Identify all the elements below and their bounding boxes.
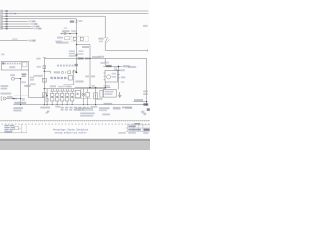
wire: bus line 7	[1, 26, 32, 28]
component: unit box x85.9	[86, 89, 90, 106]
component: small box x99.9	[100, 90, 103, 97]
label: destination of branch	[28, 40, 32, 42]
node: pin ticks left edge of M1	[104, 73, 105, 79]
component: starter M1 box	[105, 70, 118, 82]
junction at x76.5 y33.6	[76, 33, 77, 34]
label: wire number on bus 3	[6, 15, 8, 17]
component: box x67.8	[68, 71, 71, 74]
label: wire number on bus 5	[6, 21, 8, 23]
wire: vertical x105.2 from main feed	[104, 58, 106, 66]
wire: feed y66.5	[103, 66, 122, 68]
node: left terminal tick of main feed	[43, 56, 46, 58]
label: below branch	[57, 37, 63, 39]
component: fuse/unit F2	[55, 91, 59, 105]
label: right of x90 y75.4	[91, 75, 95, 77]
node: right terminal tick y50.4	[146, 49, 148, 51]
component: divider in X1	[21, 62, 23, 71]
component: element inside E1 left	[73, 37, 76, 40]
label: row x20.8 y81.4	[21, 81, 26, 83]
label: row x0.4 y92.6	[0, 93, 11, 95]
junction x75.7 y72	[75, 71, 76, 72]
switch S1 ignition	[105, 38, 107, 43]
label: wire number on bus 4	[6, 18, 8, 20]
wire: sub bus y91.1	[50, 90, 74, 92]
component: symbol on x44.3 y66	[43, 66, 46, 69]
wire: horizontal y87.6	[75, 87, 111, 89]
label: dark cell in terminal row	[75, 64, 78, 66]
wire: right edge vertical	[146, 58, 148, 104]
switch contact on dropper	[75, 54, 78, 57]
wire: dashed link y95.7	[15, 95, 29, 97]
wire: sender to node x20.6	[6, 98, 20, 100]
label: small text x25.4 y85.1	[25, 85, 29, 87]
label: H1 designation	[10, 74, 15, 76]
junction x90 y87.6	[89, 87, 90, 88]
label: legend rows bottom left	[4, 125, 14, 133]
label: text row x75.4 y80.5	[75, 81, 83, 83]
component: sender B1	[3, 97, 6, 100]
label: above sender wire	[7, 96, 12, 98]
label: terminal list right of dropper	[78, 50, 83, 52]
label: K2 pin text below	[96, 98, 102, 100]
component: inline connector circle	[64, 32, 66, 34]
label: small x113.8 y67	[114, 67, 117, 69]
label: beside vertical y98	[22, 98, 25, 101]
wire: bus line 8	[1, 28, 34, 30]
component: dashed enclosure E1	[71, 36, 89, 41]
label: on main feed dark	[78, 57, 84, 59]
component: element inside E1 right	[80, 37, 83, 40]
junction x105.3 y87.6	[105, 87, 106, 88]
wire: legend link	[19, 127, 21, 129]
ground symbol right of K2	[118, 92, 121, 98]
component: connector strip block X1	[1, 62, 29, 71]
label: destination of bus 5	[28, 21, 32, 23]
component: corner symbol x73	[73, 71, 76, 74]
label: right of battery top	[121, 69, 125, 71]
label: mid note x128 y66	[128, 66, 136, 68]
component: connector with cross on x44.3	[42, 78, 46, 82]
label: small text x1 y53.5	[1, 54, 5, 56]
label: long note row y76.8	[50, 77, 67, 79]
wire: battery vertical x118.5	[118, 67, 120, 90]
svg-text:anzeige, anlasser und -zeichen: anzeige, anlasser und -zeichen	[55, 132, 88, 135]
wire: vertical x20.5 to ground bus	[20, 79, 22, 105]
legend bottom border	[0, 132, 27, 134]
ruler line	[0, 119, 150, 121]
wire: bus line 1	[1, 10, 148, 12]
label: above bus x49.8	[50, 85, 56, 87]
label: terminal row y65	[57, 65, 78, 67]
component: small symbol below branch	[65, 37, 70, 40]
label: gray tab x112.9	[113, 107, 121, 110]
label: text row y42	[56, 42, 68, 44]
label: dark mark in box	[77, 93, 79, 95]
node: left terminal of bus 2	[0, 13, 2, 15]
junction x44.3 y104.6	[44, 104, 45, 105]
wire: bus line 3	[1, 15, 105, 17]
label: note x121.9	[122, 107, 132, 109]
junction x146.6	[146, 104, 147, 105]
node: left terminal of bus 6	[0, 23, 2, 25]
label: terminal 30 right of junction	[123, 65, 130, 67]
label: 30 near right margin y25	[143, 25, 148, 27]
junction x44.3 y71.2	[44, 71, 45, 72]
node: left terminal of bus 8	[0, 28, 2, 30]
label: above bus x58	[58, 86, 63, 88]
label: second on feed	[85, 58, 89, 60]
label: terminal list left of dropper	[69, 50, 75, 52]
node: left terminal of bus 1	[0, 10, 2, 12]
wire: branch y33.6	[60, 33, 76, 35]
label: small row below table	[118, 132, 148, 134]
scan edge light band	[0, 141, 150, 150]
wire: vertical x95.6 to ground bus	[95, 88, 97, 105]
node: left terminal of bus 7	[0, 26, 2, 28]
wire: vertical drop from bus 4	[76, 19, 78, 73]
label: dark 31 at right end	[143, 103, 148, 105]
node: arrow on sender wire	[13, 98, 15, 100]
label: inside M1 rows	[112, 73, 116, 75]
label: above branch right	[71, 30, 76, 32]
label: note x40.3	[40, 107, 50, 109]
label: left of x90 y75.4	[85, 75, 89, 77]
junction sender wire x20.6	[20, 98, 21, 99]
junction x118.5 y66.5	[118, 66, 120, 68]
wire: horizontal y44.6	[77, 44, 91, 46]
wire: horizontal y71.2	[44, 70, 50, 72]
label: TAFEL note above bus	[14, 102, 26, 104]
junction at x76.5 y72.3	[76, 72, 78, 74]
label: maker text dark bottom right	[144, 129, 150, 131]
junction x44.3 y88.6	[44, 88, 45, 89]
label: note x13.4 rows	[13, 107, 23, 109]
label: pin row inside X1	[2, 63, 20, 65]
node: left terminal of bus 5	[0, 21, 2, 23]
component: small box on x47.1	[46, 98, 49, 101]
label: note above bus right	[104, 103, 113, 105]
wire: bus line 5	[1, 20, 28, 22]
component: relay coil on x95.6	[94, 93, 98, 99]
wire: corner y97.6 to x44.3	[29, 97, 45, 99]
junction at x76.5 y44.6	[76, 44, 77, 45]
wire: vertical x73.8	[73, 70, 75, 85]
label: x91.6 y85	[92, 85, 95, 87]
label: wire size over branch	[12, 38, 17, 39]
node: bracket terminal	[1, 97, 2, 101]
junction x47.1 y104.6	[47, 104, 48, 105]
legend column separator 2	[25, 124, 27, 133]
component: box x75.2 y90.4	[75, 90, 80, 97]
junction x95.6	[95, 104, 96, 105]
wire: center vertical x90	[89, 45, 91, 88]
wire: main feed y58.45	[44, 57, 146, 59]
label: 10 designation at corner	[70, 21, 74, 23]
label: bus 2 designation dark end	[15, 13, 17, 14]
component: fuse/unit F3	[60, 91, 64, 105]
label: wire size right of center vertical	[92, 56, 100, 58]
label: wire size 1.0	[54, 71, 60, 73]
label: above K2	[104, 85, 110, 87]
wire: horizontal y98.4	[75, 97, 91, 99]
label: note x99	[99, 107, 110, 109]
component: indicator lamp H1	[11, 77, 14, 80]
component: sub-box in X1	[22, 62, 27, 67]
component: small box x68.3 y75.4	[68, 75, 72, 80]
ground arrow symbol x46.5 y111	[46, 110, 50, 113]
label: dark rows right of X1 drop	[22, 74, 27, 76]
label: below connector	[30, 83, 36, 85]
label: wire number on bus 2	[6, 13, 8, 15]
wire: branch at y40	[0, 40, 28, 42]
svg-text:Heizanlage, Starter, Steckdose: Heizanlage, Starter, Steckdose	[53, 128, 89, 132]
component: battery G1 plates	[116, 69, 120, 71]
label: note row x75.4 underlined	[75, 108, 93, 110]
label: dark corner mark x147	[147, 108, 150, 111]
label: note rows x80.2	[80, 113, 95, 115]
component: fuse/unit F1	[50, 91, 54, 105]
component: relay box K2	[103, 89, 116, 97]
label: wide note rows x60.6	[61, 107, 89, 109]
label: note x24 y84.9	[24, 85, 31, 87]
component: transistor symbol on x44.3	[43, 93, 47, 97]
label: rows right of x28.7	[30, 77, 34, 79]
label: right of battery bottom	[121, 76, 126, 78]
node: tick x50.4	[49, 71, 51, 73]
title table grid	[126, 124, 150, 132]
component: fuse/unit F5	[70, 91, 74, 105]
label: note x102.2	[102, 114, 110, 116]
label: destination of bus 7	[32, 26, 36, 28]
component: gauge circle x83.4	[82, 89, 85, 106]
junction at x20.5 y78.6	[20, 78, 22, 80]
label: left of battery	[114, 69, 117, 71]
wire: bus y88.6	[44, 88, 105, 90]
label: left of switch	[98, 38, 103, 40]
scan edge dark band	[0, 139, 150, 141]
label: right of corner	[78, 20, 82, 22]
node: left terminal of bus 3	[0, 15, 2, 17]
label: above branch y101.6	[134, 99, 143, 101]
junction main feed and center vertical	[89, 58, 90, 59]
label: table cell texts	[128, 123, 141, 131]
junction x47.1 y95.5	[47, 95, 48, 96]
component: fuse/unit F4	[65, 91, 69, 105]
label: destination of bus 6	[30, 23, 34, 25]
node: left terminal of bus 4	[0, 18, 2, 20]
wire: horizontal y84.6	[63, 84, 73, 86]
label: rows in K2	[105, 91, 114, 93]
label: beside vertical x20.5	[14, 98, 18, 100]
label: below y84.6	[63, 86, 70, 88]
component: legend symbol box	[14, 127, 19, 130]
wire: bus line 4	[1, 18, 77, 20]
label: smudge near x64 y27	[64, 27, 67, 29]
node: tick x65.8	[65, 71, 67, 73]
ruler tick marks	[1, 120, 149, 121]
label: figure x143.5	[144, 113, 147, 116]
label: above bus x67	[67, 86, 72, 88]
label: note x90.6	[91, 106, 98, 108]
wire: drop from bus 3 at x105	[104, 16, 106, 37]
wire: vertical x44.3 from main feed to ground bus	[43, 58, 45, 104]
label: above feed x98.6	[99, 56, 104, 58]
label: destination of bus 8	[34, 28, 38, 30]
wire: vertical x80.9	[80, 88, 82, 99]
wire: vertical x47.1	[46, 89, 48, 105]
wire: H1 to node	[15, 78, 21, 80]
junction at x70 y33.6	[69, 33, 70, 34]
node: drop ticks between buses	[51, 89, 73, 92]
junction x95.6 y87.6	[95, 87, 96, 88]
label: right column y90.5	[143, 91, 148, 93]
label: wire number on bus 6	[6, 23, 8, 25]
node: connector arrows on dropper	[76, 20, 78, 22]
label: wire number on bus 7	[6, 26, 8, 28]
label: text row y74.9	[34, 75, 43, 77]
wire: bus line 2	[1, 13, 148, 15]
label: left of terminal	[36, 58, 40, 60]
wire: switch output y50.4	[105, 49, 147, 51]
label: wire size below y44.6	[82, 46, 89, 48]
label: above feed x55 y40.5	[55, 41, 61, 43]
label: dark blob on y66.5	[106, 65, 112, 67]
label: above M1	[104, 62, 109, 64]
component: inline circle x62.5	[61, 71, 63, 73]
wire: bus line 6	[1, 23, 30, 25]
label: wire number on bus 1	[6, 10, 8, 12]
label: above branch left	[62, 30, 70, 32]
label: beside x105 y62	[100, 62, 104, 64]
label: first pin dark	[2, 63, 4, 65]
label: left of symbol	[37, 66, 41, 68]
wire: ground bus 31	[13, 104, 147, 106]
label: note x125.2	[125, 107, 132, 109]
label: small 4 x141.3	[141, 111, 144, 114]
wire: branch y101.6	[133, 101, 146, 103]
wire: M1 bottom link x105.3	[104, 82, 106, 89]
label: right of battery lower	[121, 81, 125, 83]
label: bus 2 designation	[9, 13, 15, 15]
label: designation inside X1	[9, 66, 15, 68]
label: text block x0.6 y85.2	[1, 85, 9, 87]
label: wire number on bus 8	[6, 28, 8, 30]
node: tick on branch	[61, 33, 63, 35]
junction x20.6	[20, 104, 21, 105]
label: note x55.3	[55, 106, 60, 108]
ruler number labels	[2, 124, 150, 125]
junction y101.6 right	[146, 101, 147, 102]
component: motor circle in M1	[107, 75, 111, 79]
wire: X1 right edge drop x28.7	[28, 70, 30, 98]
legend column separator 1	[21, 124, 23, 133]
